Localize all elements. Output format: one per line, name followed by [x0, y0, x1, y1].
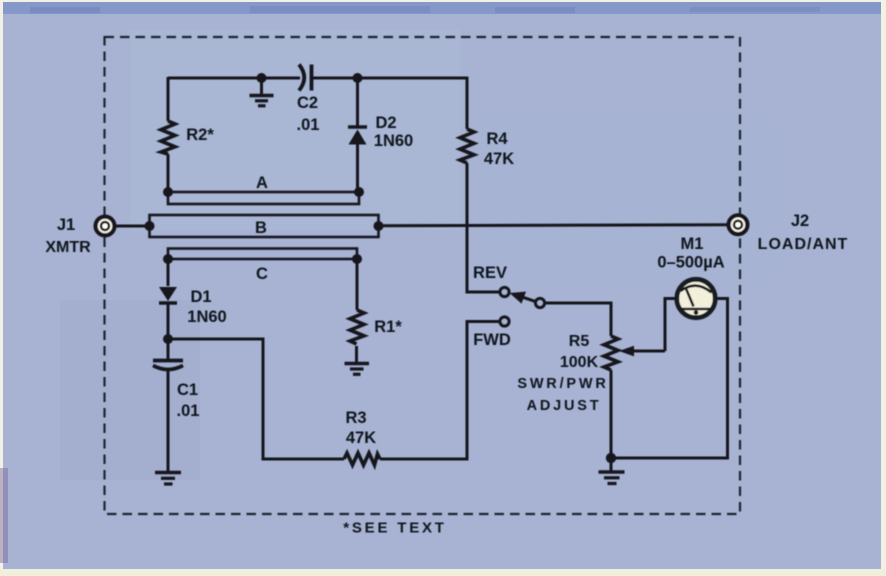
node dot top bus at D2 [353, 73, 363, 83]
node dot C left [163, 254, 173, 264]
svg-text:SWR/PWR: SWR/PWR [517, 376, 608, 392]
node dot A right [354, 187, 364, 197]
switch contact FWD [500, 317, 509, 326]
wire junction to R3 run [168, 339, 344, 459]
label D2 [375, 114, 396, 132]
switch contact REV [500, 287, 509, 296]
svg-text:ADJUST: ADJUST [527, 398, 602, 414]
svg-text:B: B [255, 219, 267, 237]
label R5 [569, 333, 590, 350]
wire R1 column [355, 259, 359, 362]
wire top bus left segment [168, 77, 300, 80]
node dot B right [374, 221, 384, 231]
wire R3 to FWD contact [380, 322, 500, 460]
svg-text:C2: C2 [297, 94, 318, 112]
label M1 [681, 235, 704, 253]
label XMTR [45, 239, 91, 256]
diode D2 1N60 [348, 127, 367, 145]
svg-text:D1: D1 [190, 288, 211, 306]
label meter range 0-500uA [657, 254, 724, 272]
label R3 value 47K [346, 429, 376, 447]
wire R2 column [167, 77, 170, 192]
coax connector J2 [729, 215, 748, 234]
svg-text:REV: REV [473, 264, 507, 282]
svg-text:M1: M1 [681, 235, 704, 253]
node dot C right [352, 254, 362, 264]
svg-text:1N60: 1N60 [374, 132, 413, 150]
ground stub at C2 bus [260, 78, 263, 94]
svg-text:J2: J2 [791, 212, 809, 230]
svg-text:A: A [256, 174, 268, 192]
svg-text:47K: 47K [346, 429, 376, 447]
label R5 value 100K [560, 354, 599, 371]
wire D2 column [356, 78, 359, 192]
capacitor C1 [153, 361, 183, 370]
label FWD [473, 331, 511, 349]
wire D1 column [167, 259, 170, 339]
svg-text:47K: 47K [484, 150, 514, 168]
potentiometer R5 [604, 336, 618, 370]
label J1 [57, 216, 75, 234]
label B [255, 219, 267, 237]
label A [256, 174, 268, 192]
label see text note [343, 520, 447, 537]
node dot D1-C1 junction [163, 334, 173, 344]
wire R5 bottom to ground junction [610, 370, 613, 458]
wire pole to R5 top [545, 303, 611, 336]
wire meter right terminal to ground junction [611, 299, 728, 459]
label D2 value 1N60 [374, 132, 413, 150]
svg-text:0–500µA: 0–500µA [657, 254, 724, 272]
label C2 value .01 [297, 116, 320, 134]
wire meter left terminal to wiper [665, 299, 675, 352]
R5 wiper arrow [619, 346, 665, 357]
label ADJUST [527, 398, 602, 414]
ground symbol at C1 [155, 473, 181, 485]
node dot ground junction [606, 453, 616, 463]
svg-text:D2: D2 [375, 114, 396, 132]
label SWR/PWR [517, 376, 608, 392]
svg-text:C: C [256, 265, 268, 283]
line B strip [150, 215, 379, 237]
pickup line C loop [168, 249, 357, 260]
ground symbol top [250, 96, 274, 106]
ground symbol at R1 [345, 364, 370, 375]
switch pole contact [535, 298, 544, 307]
label LOAD/ANT [758, 236, 849, 253]
diode D1 1N60 [159, 287, 177, 303]
label C [256, 265, 268, 283]
label R4 [486, 130, 508, 148]
svg-text:R3: R3 [345, 409, 366, 427]
svg-text:R2*: R2* [186, 126, 214, 144]
label C1 [177, 381, 198, 399]
wire line B to J2 [379, 225, 728, 226]
label D1 value 1N60 [187, 308, 226, 326]
wire C1 column [167, 339, 170, 471]
label R1* [374, 318, 402, 336]
svg-text:.01: .01 [297, 116, 320, 134]
label R4 value 47K [484, 150, 514, 168]
svg-text:FWD: FWD [473, 331, 511, 349]
wire top bus right segment [311, 77, 467, 80]
svg-text:LOAD/ANT: LOAD/ANT [758, 236, 849, 253]
label D1 [190, 288, 211, 306]
meter M1 [677, 279, 715, 317]
label REV [473, 264, 507, 282]
wire R4 column [467, 77, 500, 292]
ground stub at R5 [610, 458, 613, 471]
wire J1 to line B [116, 225, 150, 228]
svg-text:R4: R4 [486, 130, 508, 148]
node dot top bus at ground [257, 73, 267, 83]
label R2* [186, 126, 214, 144]
label C1 value .01 [177, 402, 200, 420]
resistor R3 [344, 453, 380, 465]
node dot A left [163, 187, 173, 197]
capacitor C2 [299, 65, 312, 91]
pickup line A loop [168, 192, 359, 204]
resistor R4 [460, 129, 474, 163]
svg-text:.01: .01 [177, 402, 200, 420]
svg-text:R5: R5 [569, 333, 590, 350]
coax connector J1 [96, 217, 115, 236]
node dot B left [145, 221, 155, 231]
ground symbol at R5 [599, 472, 625, 484]
svg-text:100K: 100K [560, 354, 599, 371]
label J2 [791, 212, 809, 230]
svg-text:C1: C1 [177, 381, 198, 399]
svg-text:*SEE TEXT: *SEE TEXT [343, 520, 447, 537]
svg-text:R1*: R1* [374, 318, 402, 336]
label R3 [345, 409, 366, 427]
switch arm with arrow [510, 292, 537, 304]
svg-text:J1: J1 [57, 216, 75, 234]
svg-text:XMTR: XMTR [45, 239, 91, 256]
label C2 [297, 94, 318, 112]
svg-text:1N60: 1N60 [187, 308, 226, 326]
resistor R1 [350, 310, 364, 344]
resistor R2 [161, 121, 175, 154]
dashed enclosure border [105, 37, 741, 514]
